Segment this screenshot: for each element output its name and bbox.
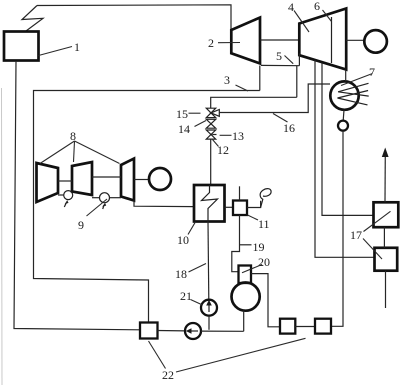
wire T8b to combustor 2 <box>92 197 100 199</box>
wire 17b bottom stub <box>385 271 387 308</box>
svg-text:15: 15 <box>176 107 188 121</box>
turbine T8c <box>121 159 134 201</box>
drain pot circle <box>338 121 348 131</box>
wire top supply line to compressor <box>37 5 231 30</box>
leader label 21 <box>191 300 203 306</box>
wire square A to square B <box>295 326 315 328</box>
wire pump to deaerator drop <box>201 330 244 332</box>
wire zigzag from box 1 to top line <box>22 6 43 32</box>
svg-text:17: 17 <box>350 228 362 242</box>
deaerator head 20 <box>239 266 252 284</box>
leader label 7 <box>341 74 373 86</box>
wire turbine extraction 1 down to heater 17b <box>315 60 375 257</box>
leader label 11 <box>248 215 259 220</box>
wire shaft T8c to generator <box>134 179 149 181</box>
combustor circle 1 <box>64 191 73 200</box>
leader label 18 <box>189 264 207 273</box>
wire line 3 compressor outlet down and across to left <box>259 66 261 91</box>
box 1 (fuel unit) <box>4 32 39 61</box>
wire between 17a and 17b <box>383 227 385 248</box>
wire valve supply line <box>211 97 297 108</box>
bottom square B <box>315 319 331 334</box>
scan edge artifact left <box>1 88 4 385</box>
wire shaft turbine to generator <box>346 39 364 41</box>
svg-text:22: 22 <box>162 368 174 382</box>
wire valve 15 to line 16 <box>220 84 331 113</box>
leader label 14 <box>195 121 207 127</box>
wire shaft compressor to turbine <box>260 39 299 41</box>
leader label 15 <box>189 112 201 114</box>
wire line 3 horizontal and down to bottom loop <box>34 91 260 323</box>
svg-text:7: 7 <box>369 65 375 79</box>
svg-text:12: 12 <box>217 143 229 157</box>
svg-text:10: 10 <box>177 233 189 247</box>
svg-text:20: 20 <box>258 255 270 269</box>
wire riser 5 to valve line <box>296 66 298 98</box>
leader label 2 <box>218 42 240 44</box>
svg-text:3: 3 <box>224 73 230 87</box>
wire drain down to bottom right square <box>331 131 343 327</box>
cooler 7 coil chevron upper <box>338 83 369 96</box>
leader label 16 <box>273 114 288 123</box>
leader label 22 a <box>149 341 166 369</box>
leader label 20 <box>242 265 262 273</box>
wire T8a-T8b upper <box>58 180 72 182</box>
heater 17a box <box>374 202 399 227</box>
wire T8c exhaust to heater 10 <box>134 201 194 207</box>
svg-text:21: 21 <box>180 289 192 303</box>
leader label 3 <box>236 85 249 91</box>
combustor 1 fuel arrow <box>64 200 68 207</box>
combustor circle 2 <box>100 193 110 203</box>
vent flag symbol <box>260 189 271 208</box>
valve 15 three-way <box>206 108 219 117</box>
svg-text:6: 6 <box>314 0 320 13</box>
leader label 12 <box>213 140 219 147</box>
heater 10 zigzag <box>202 185 218 222</box>
leader label 4 <box>294 11 309 33</box>
leader label 17 a <box>364 211 391 231</box>
pump 21 circle <box>201 300 217 316</box>
leader label 5 <box>285 56 294 64</box>
wire turbine extraction 2 down to heater 17a <box>322 63 374 216</box>
leader label 6 <box>323 10 332 22</box>
turbine U4 <box>299 9 346 70</box>
leader label 22 b <box>176 338 306 372</box>
leader label 8 b <box>74 141 75 162</box>
pump 21 up arrow <box>206 300 212 312</box>
leader label 17 b <box>363 239 382 260</box>
deaerator tank circle <box>232 283 260 311</box>
turbine T8a <box>37 163 59 202</box>
heater 17b box <box>375 248 398 271</box>
svg-text:18: 18 <box>175 267 187 281</box>
wire from box 1 down left side to bottom square <box>14 61 140 330</box>
wire valve stack down to heater 10 <box>210 139 212 185</box>
wire ejector vent with flag <box>247 201 261 208</box>
svg-text:11: 11 <box>258 217 270 231</box>
valve 13 <box>206 130 215 139</box>
wire T8a to combustor 1 <box>58 194 64 196</box>
wire stack arrow from 17a <box>382 148 389 203</box>
wire stub above ejector 11 <box>239 186 241 200</box>
wire deaerator tank bottom drop <box>243 310 245 331</box>
cooler 7 coil chevron lower <box>338 91 369 105</box>
cooler 7 circle <box>330 81 358 109</box>
wire turbine inlet drop <box>298 54 300 66</box>
wire compressor discharge line 5 <box>261 64 299 66</box>
svg-text:9: 9 <box>78 218 84 232</box>
leader label 8 c <box>75 141 120 164</box>
wire ejector 11 down with tick 19 <box>232 215 240 272</box>
svg-text:13: 13 <box>232 129 244 143</box>
svg-text:14: 14 <box>178 122 190 136</box>
leader label 10 <box>188 222 196 235</box>
generator G2 circle <box>149 168 171 190</box>
bottom left square unit <box>140 323 158 339</box>
leader label 8 a <box>40 141 75 164</box>
compressor C2 <box>231 18 260 64</box>
circulation pump left arrow <box>186 328 198 334</box>
svg-text:4: 4 <box>288 0 294 14</box>
turbine T8b <box>72 162 92 195</box>
svg-text:1: 1 <box>74 40 80 54</box>
svg-text:19: 19 <box>253 240 265 254</box>
svg-text:16: 16 <box>283 121 295 135</box>
wire condensate from heater 10 down to pump 21 <box>207 222 210 300</box>
svg-text:5: 5 <box>276 49 282 63</box>
heater 10 box <box>194 185 225 222</box>
wire combustor 2 to T8c <box>110 197 122 199</box>
leader label 9 <box>87 199 108 216</box>
ejector 11 box <box>233 201 247 216</box>
wire pump 21 to bottom line <box>208 316 210 330</box>
circulation pump circle <box>185 323 201 339</box>
wire deaerator head right to bottom squares <box>251 274 280 327</box>
leader label 1 <box>39 47 73 56</box>
wire cooler to drain pot <box>342 110 345 121</box>
wire valve 13 tick <box>212 134 216 136</box>
wire T8b-T8c upper <box>92 176 121 178</box>
wire turbine exhaust to cooler <box>345 70 347 82</box>
wire heater 10 to ejector 11 <box>225 206 234 208</box>
valve 14 <box>206 119 215 128</box>
turbine internal stage line 6 <box>331 17 333 63</box>
svg-text:2: 2 <box>208 36 214 50</box>
bottom square A <box>280 319 295 334</box>
leader label 13 <box>220 134 232 136</box>
wire square to pump <box>158 330 186 332</box>
wire tick 19 <box>240 244 252 246</box>
combustor 2 fuel arrow <box>102 203 106 209</box>
generator G1 circle <box>364 30 387 53</box>
